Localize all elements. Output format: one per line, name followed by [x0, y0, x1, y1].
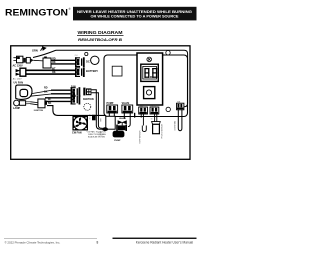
svg-text:BK: BK — [151, 119, 153, 121]
terminal DC — [75, 57, 85, 67]
button — [144, 87, 155, 99]
svg-text:DC: DC — [86, 59, 90, 63]
svg-text:WIRING DIAGRAM: WIRING DIAGRAM — [78, 30, 123, 35]
terminal IGNITION — [71, 95, 81, 105]
svg-text:VALVE: VALVE — [122, 102, 130, 105]
svg-text:BATTERY: BATTERY — [86, 69, 98, 73]
solenoid valve symbol — [118, 120, 123, 124]
wire ignition down 2 — [91, 93, 102, 129]
wire ignition down 1 — [91, 90, 102, 130]
svg-text:BK: BK — [48, 102, 52, 105]
power switch S1 — [20, 68, 26, 76]
valve coil bobbin — [116, 125, 118, 131]
svg-text:PUMP: PUMP — [114, 140, 121, 142]
svg-text:AC 120V: AC 120V — [13, 64, 23, 67]
photocell flange — [152, 122, 161, 125]
cooling fan CW FAN — [72, 116, 88, 131]
svg-text:CW FAN: CW FAN — [72, 132, 82, 135]
svg-text:© 2022 Pinnacle Climate Techno: © 2022 Pinnacle Climate Technologies, In… — [5, 240, 61, 244]
svg-text:REMINGTON: REMINGTON — [5, 7, 68, 18]
wire photo down2 — [156, 114, 158, 122]
svg-text:*CW FAN : ROTATION: *CW FAN : ROTATION — [86, 130, 106, 133]
svg-text:UV FAN: UV FAN — [14, 80, 24, 84]
connector block on wire — [92, 115, 96, 121]
svg-text:GRN: GRN — [32, 49, 38, 53]
wire BK to DC — [51, 63, 75, 65]
svg-text:OR WHILE CONNECTED TO A POWER: OR WHILE CONNECTED TO A POWER SOURCE — [91, 14, 180, 18]
board pad square — [112, 66, 122, 76]
control board panel — [104, 55, 188, 117]
seven segment display — [141, 64, 159, 81]
connector IGN — [177, 103, 184, 110]
svg-text:RD: RD — [44, 87, 48, 90]
diagram border frame — [11, 46, 190, 160]
ground wire GRN (long top wire to right side) — [33, 50, 188, 107]
connector VALVE — [122, 105, 133, 113]
footer rule left — [4, 237, 97, 240]
display module — [137, 53, 163, 105]
svg-text:TEMP SENSOR: TEMP SENSOR — [139, 130, 141, 144]
svg-text:IGNITION: IGNITION — [34, 110, 44, 112]
digit 8 right — [152, 68, 153, 78]
svg-text:DIRECTION OF FAN: DIRECTION OF FAN — [88, 133, 106, 136]
wire BK to FAN — [51, 93, 71, 95]
screw hole top — [166, 51, 170, 55]
svg-text:IGNITION: IGNITION — [83, 98, 94, 101]
wire valve down2 — [128, 113, 130, 127]
wire WT to BATTERY — [26, 69, 75, 71]
ignition plug connector — [83, 88, 85, 96]
wire temp sensor down short — [140, 114, 142, 118]
wire pump down2 — [113, 113, 115, 117]
svg-text:VALVE: VALVE — [119, 117, 127, 120]
wire RD to FAN — [51, 89, 71, 91]
wire temp sensor down — [142, 114, 144, 126]
digit 8 left — [144, 68, 145, 78]
valve wire stub — [134, 113, 135, 118]
decimal point — [150, 76, 151, 78]
connector PUMP — [107, 105, 118, 113]
svg-text:OVERHEAT: OVERHEAT — [173, 120, 176, 131]
svg-text:CN1: CN1 — [75, 55, 78, 57]
ignitor leads — [30, 102, 38, 105]
wire ign sensor loop — [178, 109, 182, 131]
svg-text:BK: BK — [44, 90, 48, 93]
connector PHOTO — [150, 107, 159, 114]
wire photo down1 — [154, 114, 156, 122]
svg-text:LAMP: LAMP — [13, 107, 20, 110]
screw hole bottom — [166, 107, 170, 111]
svg-text:NEVER LEAVE HEATER UNATTENDED: NEVER LEAVE HEATER UNATTENDED WHILE BURN… — [77, 10, 192, 14]
lamp plug — [14, 100, 20, 106]
pump unit box — [106, 116, 115, 129]
wire WT — [45, 97, 71, 99]
hole dashed — [84, 103, 91, 110]
warning banner — [73, 7, 197, 21]
connector block C1 — [43, 58, 51, 68]
wire ignitor to fan — [47, 106, 106, 116]
svg-text:AC 140V: AC 140V — [13, 77, 22, 80]
svg-text:8: 8 — [97, 240, 99, 244]
hole small — [85, 52, 88, 55]
connector TEMP — [139, 107, 148, 114]
pump inlet ellipse — [102, 127, 108, 131]
marks fuel pump — [100, 118, 101, 121]
terminal BATTERY — [75, 67, 85, 77]
buzzer circle — [91, 56, 99, 64]
photocell body — [153, 124, 160, 133]
svg-text:PUMP: PUMP — [107, 102, 114, 105]
wire BK — [47, 100, 71, 102]
AC plug P1 — [13, 58, 16, 61]
wire RD to DC — [51, 59, 75, 61]
terminal FAN — [71, 87, 81, 97]
temp sensor loop — [142, 126, 146, 132]
indicator lamp — [147, 57, 152, 62]
svg-text:PUMP: PUMP — [98, 135, 104, 137]
wire BK to BATTERY — [26, 73, 75, 75]
wire valve down1 — [123, 113, 125, 119]
ground flag symbol — [41, 47, 44, 51]
svg-text:Kerosene Radiant Heater User’s: Kerosene Radiant Heater User’s Manual — [136, 240, 194, 244]
fuel pump blob — [113, 131, 125, 138]
svg-text:REM-80TBOA-OFR B: REM-80TBOA-OFR B — [78, 38, 123, 42]
motor leads — [30, 90, 51, 96]
wire pump down1 — [108, 113, 110, 117]
svg-text:PHOTO SENSOR: PHOTO SENSOR — [161, 123, 163, 138]
footer rule right — [113, 238, 197, 239]
ignitor box — [38, 99, 45, 108]
